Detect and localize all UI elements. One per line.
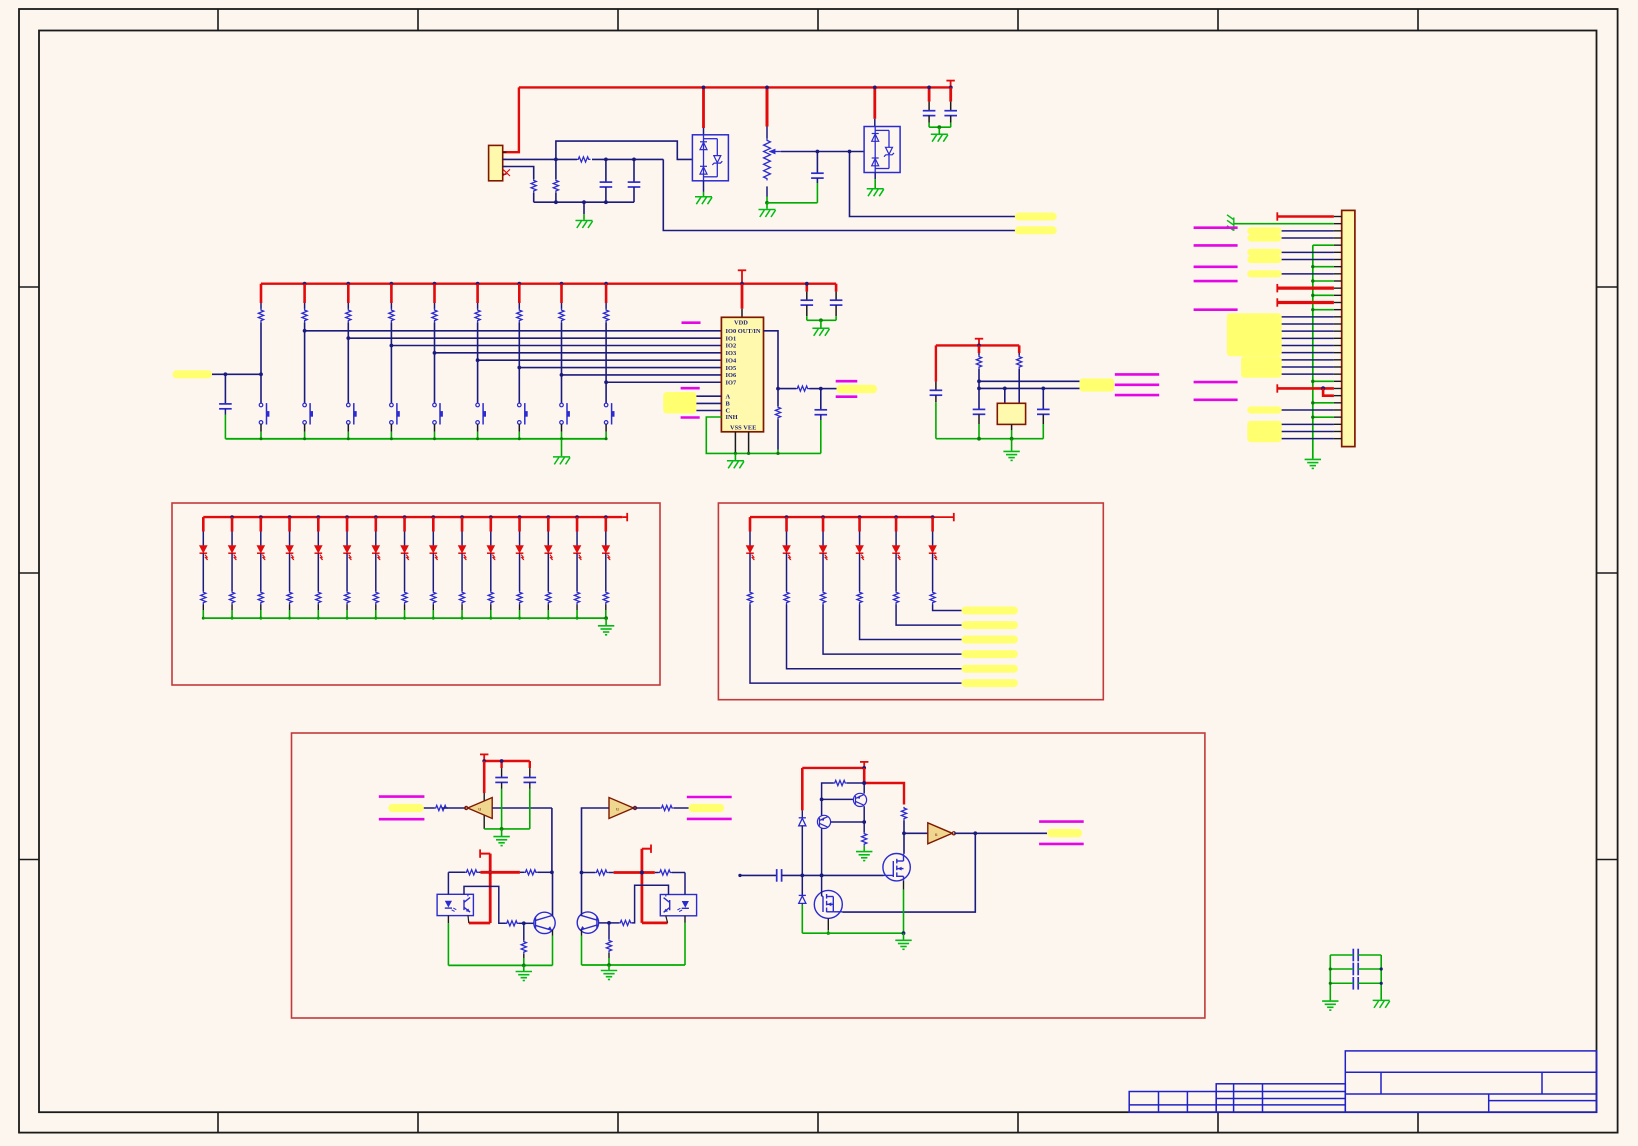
ground GND11 — [598, 626, 614, 635]
wire R down — [490, 605, 492, 611]
wire stem — [483, 754, 485, 761]
zone tick right — [1597, 286, 1618, 288]
junction — [902, 931, 906, 935]
wire green — [777, 450, 779, 454]
junction — [522, 921, 526, 925]
wire green C10 — [935, 402, 937, 439]
wire R22 down — [777, 420, 779, 450]
junction — [1041, 387, 1045, 391]
junction rail col6 — [476, 282, 480, 286]
wire to gnd — [608, 965, 610, 970]
wire vcc stem — [480, 853, 490, 855]
junction — [862, 820, 866, 824]
wire col4 to switch — [390, 322, 392, 403]
push button S1 — [259, 403, 269, 424]
wire U5 collector to R64 — [464, 886, 506, 923]
junction — [747, 452, 750, 455]
wire LED14 to R — [576, 553, 578, 591]
wire col9 — [605, 303, 607, 309]
wire green — [490, 610, 492, 618]
junction bus — [1311, 380, 1314, 383]
pin stub P1 — [1334, 366, 1342, 368]
wire col5 — [434, 303, 436, 309]
wire XI — [979, 380, 1080, 382]
junction — [805, 282, 809, 286]
wire green right C21 — [1358, 968, 1381, 970]
resistor R55 — [893, 591, 898, 604]
LED D5 — [315, 546, 324, 561]
wire input — [740, 874, 777, 876]
wire R31 down — [978, 369, 980, 410]
wire to R22 — [777, 389, 779, 406]
ground GND14 — [601, 971, 617, 980]
zone tick bottom — [1417, 1112, 1419, 1132]
pin stub P1 — [1334, 301, 1342, 303]
wire green C9 — [835, 316, 837, 320]
wire green S6 — [477, 432, 479, 439]
LED D23 — [819, 546, 828, 561]
LED D10 — [458, 546, 467, 561]
wire pin3 — [1282, 230, 1334, 232]
wire VCC stub LED6 — [346, 517, 349, 531]
junction — [902, 831, 906, 835]
wire U7 collector — [632, 885, 669, 923]
wire VCC stub LED3 — [259, 517, 262, 531]
wire to R67 — [582, 872, 596, 874]
wire col4 — [390, 303, 392, 309]
wire T1 emitter — [863, 783, 865, 794]
port IN1 bottom — [379, 818, 425, 821]
junction — [827, 932, 830, 935]
wire to gnd — [766, 203, 768, 209]
wire green — [766, 197, 768, 203]
wire col2 to switch — [304, 322, 306, 403]
wire to LED7 — [375, 532, 377, 546]
wire to LED6 — [346, 532, 348, 546]
resistor R14 — [389, 309, 394, 323]
ground GND5 — [931, 134, 948, 142]
zone tick top — [817, 9, 819, 31]
wire green C13 — [501, 789, 503, 829]
wire VCC stub col8 — [560, 284, 563, 303]
power rail Y1 — [936, 344, 1019, 346]
junction — [1380, 967, 1383, 970]
junction — [931, 515, 935, 519]
port XI — [1115, 373, 1159, 376]
junction col8 — [560, 373, 564, 377]
capacitor C6 — [219, 404, 232, 409]
potentiometer RP1 — [764, 139, 771, 181]
wire to C2 — [633, 159, 635, 182]
wire to RP1 — [766, 127, 768, 139]
junction — [1329, 982, 1332, 985]
VCC terminal Y1 — [975, 338, 983, 340]
capacitor C1 — [600, 182, 613, 187]
wire LED2 to R — [231, 553, 233, 591]
zone tick left — [19, 572, 39, 574]
junction gnd — [432, 617, 435, 620]
wire pin16 — [1282, 323, 1334, 325]
wire J1 pin3 — [503, 167, 534, 180]
port IN1 top — [379, 795, 425, 798]
wire green R73 — [863, 846, 865, 851]
wire pin28 — [1282, 409, 1334, 411]
junction — [894, 515, 898, 519]
wire green left C20 — [1330, 954, 1353, 956]
wire gnd pin29 — [1313, 416, 1334, 418]
wire green — [547, 610, 549, 618]
wire ground rail M — [802, 932, 903, 934]
junction — [1329, 967, 1332, 970]
wire R2 to rail — [533, 193, 535, 203]
junction — [765, 86, 769, 90]
resistor R19 — [603, 309, 608, 323]
resistor R41 — [201, 591, 206, 604]
junction — [460, 515, 464, 519]
capacitor C7 — [815, 410, 828, 415]
net label block B — [1241, 356, 1282, 378]
net label P1-3 — [1247, 227, 1281, 234]
wire to LED3 — [260, 532, 262, 546]
wire to gnd — [523, 965, 525, 971]
zone tick top — [217, 9, 219, 31]
wire to ground — [561, 439, 563, 456]
wire VCC stub col2 — [303, 284, 306, 303]
wire switch bottom S4 — [390, 424, 392, 432]
resistor R52 — [784, 591, 789, 604]
wire to C13 — [501, 768, 503, 777]
wire R down — [375, 605, 377, 611]
wire label to R61 — [424, 807, 435, 809]
wire to U3 — [874, 119, 876, 127]
wire green S7 — [518, 432, 520, 439]
wire C7 out — [820, 415, 822, 420]
crystal Y1 — [997, 403, 1025, 424]
zone tick top — [1217, 9, 1219, 31]
ground GND4 — [867, 189, 884, 197]
wire ABC to U1 — [696, 395, 721, 397]
push button S2 — [303, 403, 313, 424]
resistor R73 — [862, 832, 867, 845]
wire U5 cathode — [447, 916, 449, 924]
wire col7 — [518, 303, 520, 309]
connector P1 — [1342, 210, 1355, 446]
wire green rail — [929, 126, 951, 128]
wire VDD to U1 — [741, 284, 744, 309]
wire VCC to R72 — [864, 783, 904, 805]
svg-text:VDD: VDD — [734, 320, 748, 327]
junction gnd — [461, 617, 464, 620]
wire to U8 — [904, 832, 928, 834]
wire green S5 — [434, 432, 436, 439]
wire LED to R — [895, 553, 897, 591]
resistor R46 — [344, 591, 349, 604]
ground GND8 — [812, 328, 829, 336]
wire IO0 to U1 — [305, 330, 722, 332]
wire switch bottom S3 — [347, 424, 349, 432]
junction gnd — [605, 437, 608, 440]
ground GND13 — [516, 972, 532, 981]
zone tick top — [617, 9, 619, 31]
wire to LED21 — [749, 532, 751, 546]
svg-text:IO7: IO7 — [726, 379, 737, 386]
wire green S3 — [347, 432, 349, 439]
wire VCC stub LED13 — [547, 517, 550, 531]
junction col6 — [476, 358, 480, 362]
capacitor C3 — [811, 173, 824, 178]
wire to gnd — [501, 829, 503, 836]
wire VCC bar2 — [614, 871, 655, 874]
junction — [550, 870, 554, 874]
net label P1-28 — [1247, 406, 1281, 413]
MOSFET M1 — [883, 854, 910, 881]
push button S9 — [604, 403, 614, 424]
VCC terminal P1 pin1 — [1276, 212, 1278, 220]
wire green C7 — [820, 420, 822, 453]
capacitor — [1353, 963, 1358, 976]
wire R down — [519, 605, 521, 611]
ground GND17 — [1322, 1001, 1338, 1010]
wire pin21 — [1282, 359, 1334, 361]
wire XO — [979, 387, 1080, 389]
resistor R49 — [431, 591, 436, 604]
junction rail col5 — [433, 282, 437, 286]
wire gnd pin2 — [1234, 223, 1334, 225]
wire to LED9 — [432, 532, 434, 546]
wire green right C20 — [1358, 954, 1381, 956]
power rail M — [802, 767, 864, 769]
wire VCC stub RP1 — [766, 87, 769, 126]
wire switch bottom S8 — [561, 424, 563, 432]
svg-text:INH: INH — [726, 414, 738, 421]
wire col8 — [561, 303, 563, 309]
junction gnd — [202, 617, 205, 620]
capacitor C10 — [930, 390, 943, 395]
wire green — [202, 610, 204, 618]
wire VCC stub col4 — [390, 284, 393, 303]
capacitor — [1353, 949, 1358, 962]
port P1 — [1194, 280, 1238, 283]
resistor R17 — [517, 309, 522, 323]
resistor R65 — [521, 940, 526, 953]
resistor R51 — [747, 591, 752, 604]
junction — [785, 515, 789, 519]
wire green left rail — [1329, 955, 1331, 1000]
junction — [607, 963, 611, 967]
pin stub P1 — [1334, 294, 1342, 296]
junction bus — [1311, 415, 1314, 418]
wire switch bottom S2 — [304, 424, 306, 432]
pin stub P1 — [1334, 359, 1342, 361]
diode — [799, 895, 806, 903]
LED D15 — [602, 546, 611, 561]
junction — [431, 515, 435, 519]
wire U7 anode drop — [684, 873, 686, 895]
junction col2 — [303, 329, 307, 333]
wire R61 to U4 — [448, 807, 466, 809]
wire Q2 collector — [581, 873, 583, 916]
wire to gnd — [938, 127, 940, 133]
junction — [977, 387, 981, 391]
push button S5 — [433, 403, 443, 424]
wire switch bottom S7 — [518, 424, 520, 432]
wire LED8 to R — [404, 553, 406, 591]
junction — [816, 150, 820, 154]
port OUT2 bottom — [687, 818, 732, 821]
net label LEDROW6 — [962, 679, 1018, 687]
wire pin19 — [1282, 344, 1334, 346]
wire green C12 — [1042, 424, 1044, 439]
pin stub P1 — [1334, 251, 1342, 253]
port P1 — [1194, 398, 1238, 401]
LED D25 — [892, 546, 901, 561]
net label N1 — [1015, 213, 1057, 221]
junction — [734, 452, 737, 455]
wire INH to gnd rail — [706, 417, 821, 453]
LED D1 — [200, 546, 209, 561]
wire LED to R — [786, 553, 788, 591]
wire to TVS U2 input — [556, 141, 693, 159]
wire R69 to Q2 base — [609, 922, 619, 924]
wire col7 to switch — [518, 322, 520, 403]
pin stub P1 — [1334, 280, 1342, 282]
net label block A — [1227, 313, 1282, 356]
wire C4 out — [928, 116, 930, 123]
capacitor C13 — [495, 778, 508, 783]
wire M1 source — [903, 881, 905, 890]
junction rail col8 — [560, 282, 564, 286]
wire to C4 — [928, 102, 930, 111]
net label LEDROW3 — [962, 636, 1018, 644]
pin stub P1 — [1334, 309, 1342, 311]
VCC terminal U4 — [480, 753, 488, 755]
net label SIG2 — [689, 804, 725, 812]
wire U2 to gnd — [703, 181, 705, 192]
junction bus — [1311, 265, 1314, 268]
capacitor — [1353, 977, 1358, 990]
wire to label row5 — [787, 605, 962, 669]
wire VCC pin1 — [1277, 215, 1334, 217]
wire pin20 — [1282, 352, 1334, 354]
wire — [978, 353, 980, 355]
resistor R32 — [1017, 355, 1022, 369]
wire VCC stub LED7 — [374, 517, 377, 531]
wire U4 vcc pin — [483, 793, 485, 801]
pin stub P1 — [1334, 330, 1342, 332]
wire to gnd — [903, 933, 905, 940]
wire input to M1 gate — [782, 874, 884, 876]
resistor R44 — [287, 591, 292, 604]
transistor Q2 — [577, 912, 598, 933]
wire bottom rail — [534, 201, 634, 203]
capacitor C8 — [801, 300, 814, 305]
wire green — [576, 610, 578, 618]
wire VCC stub LED26 — [931, 517, 934, 531]
net label P1-9 — [1247, 270, 1281, 277]
pin stub P1 — [1334, 416, 1342, 418]
wire VCC to opto2 emitter — [642, 922, 668, 925]
junction — [862, 781, 866, 785]
wire green — [289, 610, 291, 618]
wire to T1 base — [822, 798, 854, 800]
wire col1 to switch — [260, 322, 262, 403]
junction — [518, 515, 522, 519]
wire R71 right — [847, 782, 864, 784]
wire green R65 — [523, 958, 525, 965]
LED D14 — [573, 546, 582, 561]
junction — [604, 616, 608, 620]
net label COM — [173, 370, 213, 378]
wire net lower — [663, 159, 1015, 230]
junction bus — [1311, 401, 1314, 404]
zone tick bottom — [217, 1112, 219, 1132]
resistor R70 — [606, 939, 611, 952]
driver box — [292, 733, 1205, 1018]
wire C2 to rail — [633, 187, 635, 202]
wire green S4 — [390, 432, 392, 439]
wire to D30 — [801, 810, 803, 817]
wire VCC stub LED22 — [785, 517, 788, 531]
power rail LED left — [203, 516, 622, 518]
wire IO6 to U1 — [562, 374, 722, 376]
wire col6 — [477, 303, 479, 309]
resistor R47 — [373, 591, 378, 604]
wire VCC pin13 — [1277, 301, 1334, 304]
svg-text:B: B — [726, 401, 731, 408]
wire VCC stub LED23 — [822, 517, 825, 531]
LED D12 — [516, 546, 525, 561]
LED D24 — [856, 546, 865, 561]
junction red — [1321, 386, 1325, 390]
ground GND16 — [895, 940, 911, 949]
wire green — [260, 610, 262, 618]
wire green C11 — [978, 424, 980, 439]
junction — [800, 874, 804, 878]
wire R64 to Q1 base — [519, 922, 534, 924]
pin stub P1 — [1334, 244, 1342, 246]
ground GND3 — [759, 210, 776, 218]
junction rail col3 — [346, 282, 350, 286]
wire col2 — [304, 303, 306, 309]
ground GND15 — [856, 852, 872, 861]
wire to LED11 — [490, 532, 492, 546]
junction gnd — [433, 437, 436, 440]
junction — [927, 86, 931, 90]
wire VCC stub R32 — [1018, 345, 1021, 353]
pin stub P1 — [1334, 387, 1342, 389]
port DRV bottom — [1039, 843, 1084, 846]
title block — [1129, 1051, 1596, 1112]
LED D22 — [783, 546, 792, 561]
junction bus — [1311, 294, 1314, 297]
junction — [977, 379, 981, 383]
junction col5 — [433, 351, 437, 355]
VCC terminal — [1276, 284, 1278, 292]
wire C3 out — [816, 178, 818, 183]
wire VCC bar1 — [480, 871, 520, 874]
wire to label row6 — [750, 605, 962, 684]
wire to U7 anode — [672, 872, 685, 874]
port P1 — [1194, 381, 1238, 384]
wire out to label — [975, 832, 1047, 834]
wire to label row4 — [823, 605, 961, 655]
wire green right rail — [1380, 955, 1382, 1000]
wire gnd pin14 — [1313, 309, 1334, 311]
wire to LED8 — [404, 532, 406, 546]
wire VCC stub C4 — [928, 87, 931, 101]
VCC terminal M — [860, 761, 868, 763]
capacitor C11 — [973, 409, 986, 414]
